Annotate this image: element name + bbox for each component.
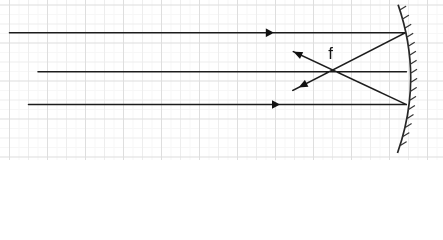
reflected ray A (from mirror top through focus) <box>293 33 406 91</box>
incident ray 3 (bottom, parallel to axis) <box>29 104 407 106</box>
arrowhead of incident ray 3 <box>272 100 280 109</box>
incident ray 2 (middle, optical axis) <box>38 71 406 73</box>
concave mirror arc <box>398 5 411 153</box>
arrowhead of reflected ray B <box>293 52 303 59</box>
arrowhead of incident ray 1 <box>266 28 274 37</box>
mirror back hatching <box>399 6 417 146</box>
svg-text:f: f <box>328 44 333 63</box>
incident ray 1 (top, parallel to axis) <box>10 32 406 34</box>
reflected ray B (from mirror bottom through focus) <box>293 52 406 105</box>
arrowhead of reflected ray A <box>299 80 309 88</box>
